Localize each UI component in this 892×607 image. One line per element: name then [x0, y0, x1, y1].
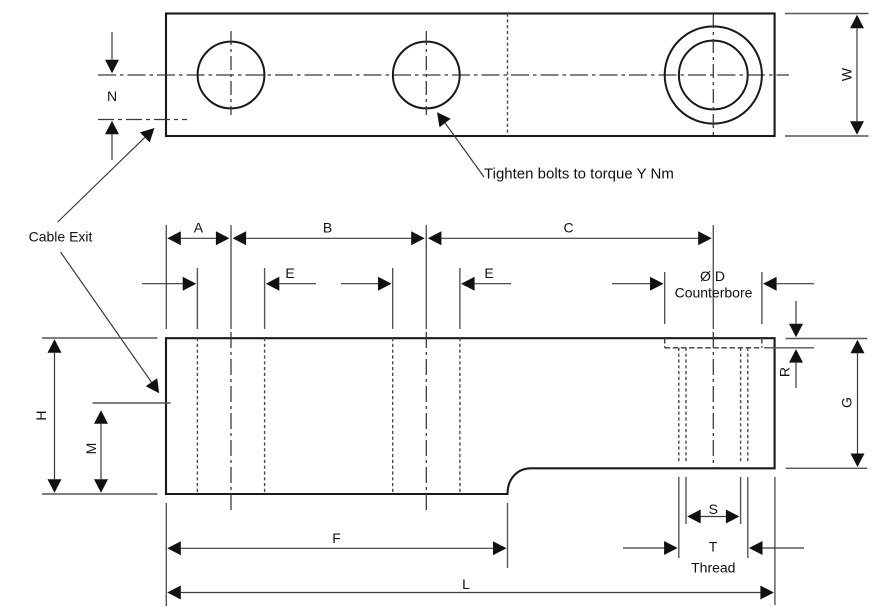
R bottom extension line	[764, 347, 814, 349]
dimension H	[54, 353, 56, 479]
dimension D counterbore outside arrows	[612, 283, 650, 285]
hole 2 (bolt hole)	[393, 42, 460, 109]
hole 3 inner circle	[679, 41, 748, 110]
hole 2 hidden edge line right (side view)	[459, 338, 461, 494]
T extension line right	[747, 477, 749, 558]
svg-text:Counterbore: Counterbore	[675, 285, 753, 301]
extension line hole 2 left edge	[392, 268, 394, 329]
L right extension line	[774, 477, 776, 605]
thread major dia hidden line right (side view)	[747, 348, 749, 462]
N dimension lower arrow	[111, 134, 113, 160]
top view outline	[166, 14, 775, 137]
svg-text:W: W	[839, 67, 855, 81]
thread major dia hidden line left (side view)	[678, 348, 680, 462]
svg-text:Tighten bolts to torque Y Nm: Tighten bolts to torque Y Nm	[484, 166, 674, 183]
svg-text:S: S	[709, 501, 718, 517]
extension line at part left edge (A)	[165, 225, 167, 329]
svg-text:E: E	[484, 265, 493, 281]
R top extension line	[786, 338, 868, 340]
hole 3 counterbore outer circle	[665, 26, 762, 123]
svg-text:Cable Exit: Cable Exit	[29, 228, 93, 244]
svg-text:F: F	[332, 530, 341, 546]
hole 1 hidden edge line left (side view)	[196, 338, 198, 494]
cable exit line (side view)	[93, 402, 171, 404]
T extension line left	[678, 477, 680, 558]
extension line at hole 1 center	[230, 225, 232, 329]
W dimension extension line top	[785, 13, 869, 15]
extension line hole 1 right edge	[264, 268, 266, 329]
H extension line bottom	[42, 493, 158, 495]
leader from Cable Exit to top view	[58, 137, 145, 222]
F right extension line	[507, 503, 509, 568]
thread minor dia hidden line right (side view)	[740, 348, 742, 462]
extension line at hole 3 center	[712, 225, 714, 329]
counterbore hidden right wall (side view)	[761, 338, 763, 348]
dimension E (hole 1) outside arrows	[142, 283, 183, 285]
leader from Cable Exit to side view	[61, 252, 152, 382]
extension line counterbore right edge	[761, 272, 763, 324]
counterbore hidden left wall (side view)	[664, 338, 666, 348]
svg-text:Thread: Thread	[691, 560, 735, 576]
extension line hole 1 left edge	[196, 268, 198, 329]
W dimension line	[856, 28, 858, 121]
svg-text:A: A	[194, 220, 204, 236]
dimension F	[181, 547, 493, 549]
dimension T outside arrows	[623, 547, 664, 549]
svg-text:L: L	[462, 576, 470, 592]
dimension A	[181, 237, 216, 239]
dimension B	[246, 237, 411, 239]
dimension G	[857, 353, 859, 453]
counterbore hidden bottom (side view)	[665, 347, 762, 349]
F left extension line	[165, 503, 167, 606]
svg-text:Ø D: Ø D	[700, 268, 725, 284]
svg-text:B: B	[323, 220, 332, 236]
hole 1 centerline (side view)	[230, 332, 232, 514]
svg-text:G: G	[839, 397, 855, 408]
hole 3 centerline (side view)	[712, 332, 714, 468]
dimension C	[441, 237, 698, 239]
S extension line right	[740, 477, 742, 524]
extension line counterbore left edge	[664, 272, 666, 324]
W dimension extension line bottom	[785, 135, 869, 137]
S extension line left	[685, 477, 687, 524]
H extension line top	[42, 337, 158, 339]
hole 3 vertical centerline	[712, 14, 714, 135]
dimension R arrows	[795, 301, 797, 324]
side view outline	[166, 338, 775, 494]
hole 2 vertical centerline	[425, 31, 427, 115]
cable exit line (top view)	[98, 119, 187, 121]
svg-text:H: H	[33, 410, 49, 420]
hole 2 hidden edge line left (side view)	[392, 338, 394, 494]
horizontal centerline (top view)	[98, 74, 789, 76]
torque note leader	[445, 123, 484, 177]
svg-text:T: T	[709, 539, 718, 555]
N dimension upper arrow	[111, 32, 113, 60]
svg-text:C: C	[563, 220, 573, 236]
hole 2 centerline (side view)	[425, 332, 427, 514]
thread minor dia hidden line left (side view)	[685, 348, 687, 462]
step hidden line (top view)	[507, 14, 509, 137]
dimension L	[181, 592, 761, 594]
extension line hole 2 right edge	[459, 268, 461, 329]
dimension S	[701, 516, 726, 518]
dimension E (hole 2) outside arrows	[341, 283, 378, 285]
svg-text:E: E	[285, 265, 294, 281]
G bottom extension line	[786, 467, 868, 469]
svg-text:M: M	[83, 443, 99, 455]
extension line at hole 2 center	[425, 225, 427, 329]
dimension M	[100, 424, 102, 480]
svg-text:N: N	[107, 88, 117, 104]
hole 1 vertical centerline	[230, 31, 232, 115]
hole 1 hidden edge line right (side view)	[264, 338, 266, 494]
svg-text:R: R	[777, 367, 793, 377]
hole 1 (bolt hole)	[198, 42, 265, 109]
